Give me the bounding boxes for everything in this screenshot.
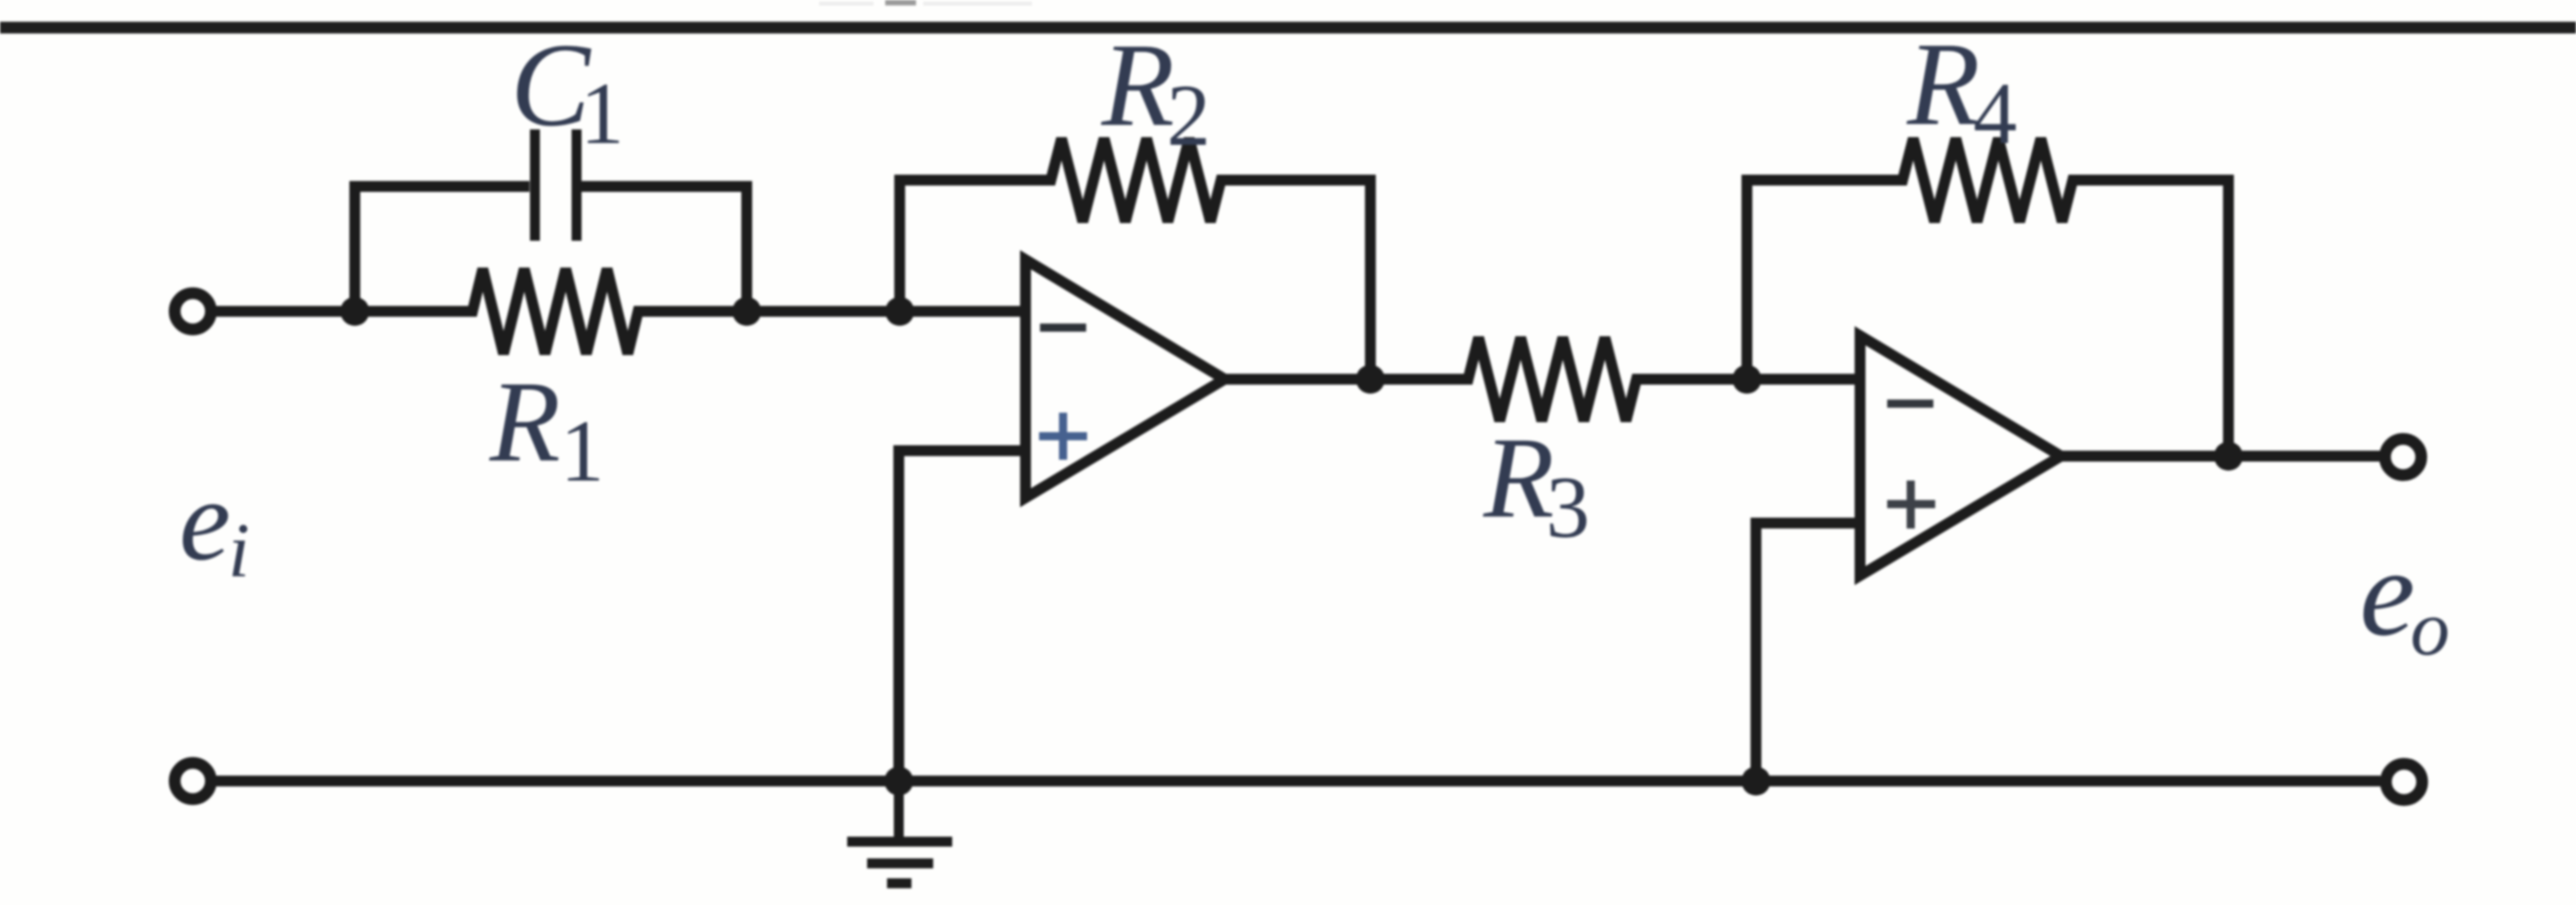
U1 noninverting input wire <box>899 451 1026 781</box>
svg-text:o: o <box>2410 584 2450 672</box>
op-amp U1 <box>1026 260 1225 498</box>
wire U2 output to eo terminal <box>2061 451 2380 462</box>
node G (ground junction on rail) <box>884 767 913 795</box>
svg-text:3: 3 <box>1546 459 1590 556</box>
capacitor C1 plates <box>535 129 577 241</box>
node H (U2 + rail junction) <box>1741 767 1770 795</box>
output terminal eo <box>2385 439 2421 475</box>
node B (right of C1/R1) <box>732 297 761 326</box>
node F (U2 output) <box>2214 442 2243 471</box>
wire U1 output through resistor R3 zigzag to U2 inverting input <box>1225 338 1860 421</box>
op-amp U2 <box>1860 336 2061 576</box>
node C (U1 inverting input / feedback tap) <box>885 297 914 326</box>
svg-text:e: e <box>179 456 231 585</box>
U1 minus sign <box>1040 324 1086 332</box>
wire C1 branch right riser <box>581 186 747 311</box>
U2 noninverting input wire <box>1756 523 1860 781</box>
top border rule <box>0 22 2576 33</box>
svg-text:R: R <box>1483 414 1554 542</box>
bottom right terminal <box>2386 764 2422 800</box>
U2 plus sign <box>1887 481 1935 529</box>
wire C1 branch left riser <box>355 186 530 311</box>
svg-text:i: i <box>228 507 250 594</box>
svg-text:4: 4 <box>1973 65 2018 162</box>
wire input to op-amp U1 inverting input with resistor R1 zigzag <box>215 269 1026 354</box>
U2 minus sign <box>1887 400 1933 408</box>
ground symbol <box>847 786 952 883</box>
bottom rail wire <box>216 776 2380 786</box>
cropped caption remnant <box>885 0 916 5</box>
svg-text:R: R <box>1906 17 1980 150</box>
svg-text:e: e <box>2360 523 2415 662</box>
node E (U2 inverting input / feedback tap) <box>1732 365 1761 394</box>
svg-text:2: 2 <box>1167 67 1211 164</box>
U1 plus sign <box>1039 413 1087 460</box>
feedback branch with resistor R2 zigzag <box>900 138 1370 379</box>
node D (U1 output) <box>1356 365 1385 394</box>
svg-text:R: R <box>1101 18 1175 151</box>
svg-text:1: 1 <box>580 65 625 162</box>
feedback branch with resistor R4 zigzag <box>1747 138 2228 456</box>
svg-text:R: R <box>489 357 560 486</box>
bottom left terminal <box>175 763 211 799</box>
svg-text:1: 1 <box>560 403 605 500</box>
node A (left of C1/R1) <box>340 297 369 326</box>
input terminal ei <box>175 293 211 329</box>
